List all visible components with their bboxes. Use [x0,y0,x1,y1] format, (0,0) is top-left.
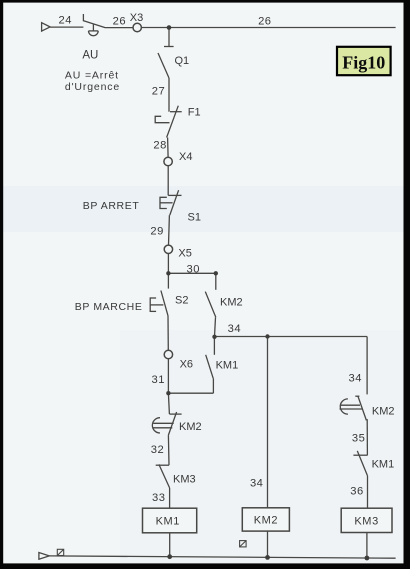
svg-text:KM2: KM2 [372,406,395,418]
svg-text:d'Urgence: d'Urgence [65,81,120,93]
svg-text:36: 36 [350,486,363,498]
svg-text:26: 26 [113,16,126,28]
svg-text:24: 24 [58,14,71,26]
svg-text:34: 34 [349,372,362,384]
svg-text:AU: AU [82,50,98,62]
svg-text:S1: S1 [188,212,201,224]
svg-text:Fig10: Fig10 [342,52,385,72]
svg-text:KM2: KM2 [179,421,202,433]
svg-text:BP ARRET: BP ARRET [83,200,140,212]
svg-text:31: 31 [152,374,165,386]
svg-text:26: 26 [258,16,271,28]
svg-text:AU =Arrêt: AU =Arrêt [65,69,119,81]
svg-text:28: 28 [153,140,166,152]
svg-text:29: 29 [150,225,163,237]
svg-text:KM2: KM2 [220,297,243,309]
svg-text:27: 27 [152,86,165,98]
svg-text:KM2: KM2 [254,515,278,527]
svg-text:30: 30 [186,263,199,275]
svg-text:X4: X4 [179,151,192,163]
svg-text:KM1: KM1 [372,459,395,471]
svg-text:F1: F1 [188,107,201,119]
svg-text:33: 33 [152,492,165,504]
svg-text:35: 35 [352,433,365,445]
svg-text:X3: X3 [130,12,143,24]
svg-text:X5: X5 [178,247,191,259]
svg-text:34: 34 [250,478,263,490]
svg-text:KM3: KM3 [354,516,378,528]
svg-text:BP MARCHE: BP MARCHE [75,301,143,313]
svg-text:KM1: KM1 [156,516,180,528]
svg-text:X6: X6 [180,359,193,371]
svg-text:S2: S2 [175,294,188,306]
svg-text:32: 32 [151,444,164,456]
svg-text:34: 34 [228,323,241,335]
svg-text:KM1: KM1 [216,360,239,372]
svg-text:Q1: Q1 [175,55,190,67]
svg-text:KM3: KM3 [173,474,196,486]
